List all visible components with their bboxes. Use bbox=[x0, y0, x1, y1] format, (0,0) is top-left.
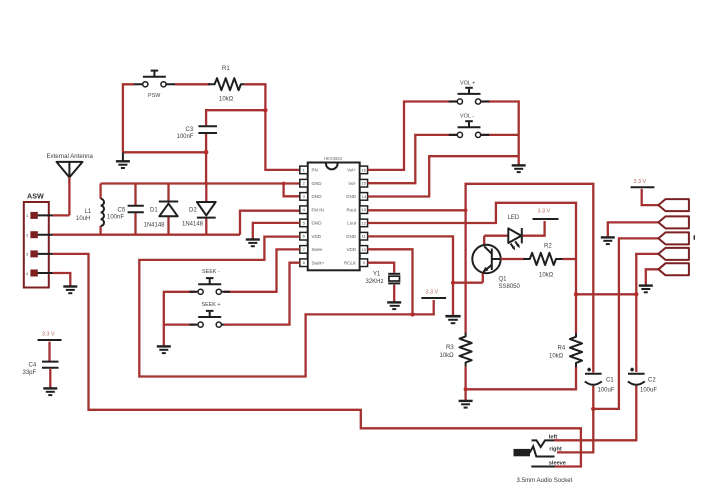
wire bus A bbox=[101, 182, 300, 184]
resistor R2 10k bbox=[501, 244, 576, 279]
junction dot R3 bottom bbox=[464, 387, 468, 391]
svg-text:32KHz: 32KHz bbox=[366, 279, 384, 285]
ground (SEEK) bbox=[157, 346, 171, 353]
power 3.3V near Y1 bbox=[421, 290, 446, 299]
svg-text:100nF: 100nF bbox=[107, 215, 124, 221]
svg-text:10kΩ: 10kΩ bbox=[549, 354, 564, 360]
svg-text:10kΩ: 10kΩ bbox=[219, 97, 234, 103]
svg-text:SEEK -: SEEK - bbox=[202, 269, 220, 275]
wire ASW pin1 to antenna bbox=[53, 214, 70, 216]
wire C1 bottom to junction bbox=[592, 386, 594, 409]
svg-text:SS8050: SS8050 bbox=[499, 284, 521, 290]
wire crystal to ground bbox=[393, 285, 395, 302]
antenna External Antenna bbox=[47, 153, 94, 184]
svg-text:left: left bbox=[549, 434, 558, 440]
push button PSW bbox=[134, 71, 175, 99]
connector tag 1 bbox=[658, 199, 689, 211]
svg-text:C5: C5 bbox=[118, 208, 126, 214]
junction dot Rout node bbox=[464, 208, 468, 212]
wire Rout node down to R3 bbox=[464, 210, 466, 333]
wire PSW right terminal to R1 left bbox=[175, 83, 211, 85]
connector tag 4 bbox=[658, 248, 689, 260]
ground (VOL rail) bbox=[512, 156, 526, 172]
IC U1 HEX3653 bbox=[300, 156, 368, 270]
wire IC pin13 Rout to node bbox=[368, 209, 466, 211]
svg-text:C2: C2 bbox=[648, 378, 656, 384]
junction dot tag4/C2 node bbox=[634, 292, 638, 296]
audio socket plug and right contact bbox=[514, 446, 555, 456]
wire bus B to IC pin4 FM IN bbox=[240, 211, 300, 235]
svg-text:C1: C1 bbox=[606, 378, 614, 384]
ground (tag5) bbox=[639, 286, 653, 293]
resistor R1 10k bbox=[208, 66, 244, 103]
audio socket sleeve contact bbox=[531, 466, 555, 468]
svg-text:100nF: 100nF bbox=[177, 134, 194, 140]
svg-text:C4: C4 bbox=[29, 363, 37, 369]
svg-text:L1: L1 bbox=[85, 209, 92, 215]
svg-text:GND: GND bbox=[312, 221, 323, 226]
inductor L1 10uH bbox=[76, 184, 104, 235]
svg-text:16: 16 bbox=[361, 167, 366, 172]
wire VOL- right to rail bbox=[479, 134, 519, 136]
wire C3 bottom to junction bbox=[205, 134, 207, 152]
svg-text:Y1: Y1 bbox=[373, 272, 381, 278]
wire IC pin6 VDD to 3.3V node bbox=[139, 237, 412, 377]
wire tag5 to ground bbox=[646, 269, 659, 285]
wire ASW pin2 bus B bbox=[53, 234, 241, 236]
wire IC pin9 RCLK to crystal bbox=[368, 263, 395, 273]
junction dot Lout/R4 node bbox=[574, 292, 578, 296]
svg-text:LED: LED bbox=[508, 215, 520, 221]
svg-text:10kΩ: 10kΩ bbox=[440, 353, 455, 359]
svg-text:100uF: 100uF bbox=[598, 388, 615, 394]
ground (C4) bbox=[43, 388, 57, 395]
svg-text:ASW: ASW bbox=[27, 192, 44, 201]
junction dot R1/C3 node bbox=[263, 108, 267, 112]
connector tag 2 bbox=[658, 216, 689, 228]
power 3.3V at C4 bbox=[38, 332, 62, 341]
svg-text:14: 14 bbox=[361, 194, 366, 199]
wire IC pin5 to ground bbox=[253, 223, 300, 239]
svg-text:Vol+: Vol+ bbox=[347, 168, 356, 173]
svg-text:1N4148: 1N4148 bbox=[182, 222, 204, 228]
junction dot emitter node bbox=[451, 281, 455, 285]
ground (ASW pin4) bbox=[63, 287, 77, 294]
wire IC pin16 to VOL+ left bbox=[368, 102, 459, 170]
connector tag 5 bbox=[658, 263, 689, 275]
power 3.3V at tag1 bbox=[631, 179, 655, 187]
audio socket left contact bbox=[532, 440, 555, 447]
svg-text:3.3 V: 3.3 V bbox=[634, 179, 647, 185]
svg-text:1N4148: 1N4148 bbox=[144, 223, 166, 229]
svg-text:VOL -: VOL - bbox=[460, 114, 474, 120]
svg-text:Vol-: Vol- bbox=[348, 181, 356, 186]
wire IC pin7 to SEEK- right bbox=[224, 249, 300, 291]
label audio socket bbox=[517, 434, 573, 484]
wire VOL rail to IC pin14 GND bbox=[368, 156, 519, 196]
wire SEEK+ left to ground rail bbox=[164, 323, 196, 325]
junction dot bus A / D2 branch bbox=[204, 182, 207, 185]
wire IC pin12 Lout to R4 node bbox=[368, 203, 576, 294]
svg-text:SEEK +: SEEK + bbox=[202, 302, 221, 308]
svg-text:VDD: VDD bbox=[312, 234, 322, 239]
wire IC pin10 VDD to 3.3V node bbox=[368, 249, 413, 314]
svg-text:12: 12 bbox=[361, 220, 366, 225]
junction dot bus A to pin3 bbox=[282, 182, 286, 186]
wire ASW pin3 to audio sleeve bbox=[53, 254, 581, 467]
svg-text:15: 15 bbox=[361, 181, 366, 186]
svg-text:10kΩ: 10kΩ bbox=[539, 273, 554, 279]
ground (tag2) bbox=[601, 237, 615, 244]
capacitor C3 100nF bbox=[177, 126, 218, 140]
wire ASW pin4 to ground bbox=[53, 273, 71, 286]
svg-text:33pF: 33pF bbox=[23, 370, 37, 376]
wire PSW left terminal to ground node bbox=[123, 84, 134, 152]
connector designator mark bbox=[694, 235, 695, 240]
svg-text:GND: GND bbox=[312, 181, 323, 186]
svg-text:R3: R3 bbox=[446, 345, 454, 351]
capacitor C5 100nF bbox=[107, 184, 144, 235]
wire Rout node up and over to C1 top bbox=[466, 184, 594, 373]
wire IC pin11 GND to emitter rail bbox=[368, 236, 453, 315]
push button VOL- bbox=[449, 114, 490, 138]
push button SEEK+ bbox=[189, 302, 230, 327]
svg-text:HEX3653: HEX3653 bbox=[324, 156, 343, 161]
resistor R3 10k bbox=[440, 333, 472, 367]
svg-text:GND: GND bbox=[346, 194, 357, 199]
ground (Y1) bbox=[387, 302, 401, 309]
svg-text:GND: GND bbox=[312, 194, 323, 199]
wire emitter to rail bbox=[453, 282, 483, 284]
svg-text:Q1: Q1 bbox=[499, 277, 508, 283]
svg-text:External Antenna: External Antenna bbox=[47, 153, 94, 160]
wire ground node to C3 bottom node bbox=[123, 151, 206, 153]
capacitor C4 33pF bbox=[23, 362, 59, 376]
diode D1 1N4148 bbox=[144, 184, 179, 235]
svg-text:3.3 V: 3.3 V bbox=[538, 209, 551, 215]
svg-text:right: right bbox=[549, 447, 562, 453]
wire C3 node down to bus A bbox=[205, 152, 207, 183]
wire R4 node to tag4 node bbox=[576, 293, 636, 295]
wire C1 node to audio right bbox=[557, 409, 593, 453]
svg-text:10: 10 bbox=[361, 247, 366, 252]
svg-text:Rout: Rout bbox=[346, 208, 356, 213]
wire tag3 to C1 node bbox=[593, 238, 658, 409]
wire R3 bottom to ground and R4 bbox=[466, 367, 576, 390]
wire bus A branch to IC pin3 bbox=[284, 184, 300, 197]
svg-text:sleeve: sleeve bbox=[549, 461, 566, 467]
svg-text:D2: D2 bbox=[189, 208, 197, 214]
junction dot C3 bottom node bbox=[204, 150, 209, 155]
power 3.3V at LED bbox=[533, 209, 559, 220]
svg-text:GND: GND bbox=[346, 234, 357, 239]
wire tag2 to ground bbox=[608, 222, 659, 237]
wire tag4 down to C2 node bbox=[636, 254, 658, 294]
svg-text:3.3 V: 3.3 V bbox=[426, 290, 439, 296]
push button VOL+ bbox=[449, 81, 490, 105]
wire 3.3V to tag1 bbox=[642, 189, 659, 205]
ground (IC pin5) bbox=[246, 240, 260, 247]
svg-text:VDD: VDD bbox=[346, 247, 356, 252]
capacitor C2 100uF bbox=[628, 294, 658, 393]
svg-text:PSW: PSW bbox=[148, 93, 161, 99]
svg-text:C3: C3 bbox=[186, 127, 194, 133]
wire R1 right to IC pin1 bbox=[244, 84, 299, 170]
svg-text:RCLK: RCLK bbox=[344, 261, 356, 266]
wire VOL+ right to rail bbox=[479, 102, 519, 157]
svg-text:3.3 V: 3.3 V bbox=[42, 332, 55, 338]
svg-text:VOL +: VOL + bbox=[460, 81, 475, 87]
wire SEEK- left to ground rail bbox=[164, 292, 196, 346]
svg-text:Lout: Lout bbox=[347, 221, 357, 226]
junction dot C1 bottom bbox=[591, 407, 595, 411]
svg-text:D1: D1 bbox=[150, 208, 158, 214]
resistor R4 10k bbox=[549, 294, 582, 367]
diode D2 1N4148 bbox=[182, 184, 216, 235]
transistor Q1 SS8050 bbox=[472, 236, 520, 290]
ground (R3/R4) bbox=[459, 401, 473, 408]
wire IC pin15 to VOL- left bbox=[368, 135, 459, 183]
svg-text:R1: R1 bbox=[222, 66, 230, 72]
crystal Y1 32KHz bbox=[366, 272, 401, 286]
wire antenna stem bbox=[68, 177, 70, 215]
wire 3.3V node to supply bar bbox=[413, 300, 434, 314]
wire IC pin8 to SEEK+ right bbox=[224, 263, 300, 325]
push button SEEK- bbox=[189, 269, 230, 294]
wire R3 node to ground bbox=[464, 389, 466, 400]
wire R1 node to C3 top bbox=[206, 110, 265, 125]
svg-text:10uH: 10uH bbox=[76, 216, 90, 222]
svg-text:FM IN: FM IN bbox=[312, 208, 324, 213]
wire C2 bottom to audio left bbox=[554, 386, 636, 441]
LED bbox=[484, 215, 544, 251]
svg-text:Seek+: Seek+ bbox=[312, 261, 325, 266]
capacitor C1 100uF bbox=[585, 368, 615, 394]
svg-text:R2: R2 bbox=[544, 244, 552, 250]
wire C4 to ground bbox=[49, 369, 51, 388]
connector ASW bbox=[24, 192, 53, 288]
ground (PSW / C3) bbox=[116, 152, 130, 168]
svg-text:13: 13 bbox=[361, 207, 366, 212]
svg-text:100uF: 100uF bbox=[640, 388, 657, 394]
svg-text:PN: PN bbox=[312, 168, 318, 173]
ground (pin11 / emitter) bbox=[445, 316, 460, 323]
connector tag 3 bbox=[658, 232, 689, 244]
wire 3.3V to C4 bbox=[48, 342, 50, 361]
svg-text:3.5mm Audio Socket: 3.5mm Audio Socket bbox=[517, 477, 573, 484]
svg-text:R4: R4 bbox=[558, 346, 566, 352]
junction dot 3.3V node bbox=[410, 312, 414, 316]
svg-text:Seek-: Seek- bbox=[312, 247, 324, 252]
